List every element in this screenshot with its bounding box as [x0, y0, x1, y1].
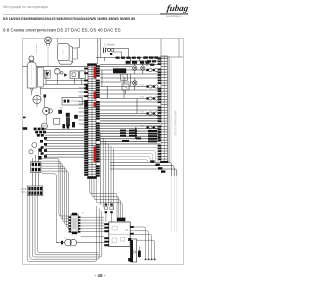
fan symbol M4 [55, 69, 64, 75]
condenser 3D box [58, 44, 73, 65]
svg-text:ПУЛЬТ УПРАВЛЕНИЯ: ПУЛЬТ УПРАВЛЕНИЯ [175, 110, 178, 136]
right side step wires [110, 162, 177, 232]
svg-text:www.fubag.ru: www.fubag.ru [166, 15, 182, 18]
lamp HL1 [133, 66, 137, 70]
plug pair XS7 [110, 204, 114, 222]
XT1 red wire marks [94, 67, 97, 163]
thick vertical x135.8 [135, 128, 137, 139]
plug-socket pairs XS rows [146, 68, 158, 129]
aux relay box K1 [121, 74, 128, 80]
side rect of cylinder [38, 67, 44, 87]
optocoupler U1 [69, 213, 81, 234]
XT1 bottom bundle to board [90, 179, 123, 218]
long wire y88.3 [40, 87, 88, 89]
svg-text:A1: A1 [125, 228, 129, 232]
lamp HL3 [133, 81, 137, 85]
hatched vertical element [66, 117, 70, 126]
QF1 to XT2 wires [32, 152, 38, 186]
capacitor C1 cluster [104, 48, 114, 55]
fan motor M3 [33, 95, 41, 103]
contact bars row y61 [126, 61, 150, 64]
small motor bottom [41, 123, 47, 129]
gray step wires from XT1 [100, 148, 158, 162]
XT1 left pin ticks [84, 68, 88, 176]
connector stubs to XT1 left [79, 88, 88, 124]
schematic frame [22, 38, 183, 264]
relay coil KM1 black box [113, 68, 126, 73]
black block right of wide box [84, 100, 89, 107]
wire loop top mid [104, 49, 129, 58]
lamp HL2 [141, 66, 145, 70]
circuit breaker QF1 [31, 162, 41, 173]
phase contact squares grid [34, 128, 47, 158]
heater EK1 hatched [44, 70, 50, 78]
ground terminal dots [145, 259, 156, 261]
board bottom drop wire [138, 247, 141, 258]
aux relay box K2 [122, 84, 129, 90]
mid vertical link wires [105, 57, 147, 94]
transformer T1 [56, 239, 104, 246]
mains wire bundle bottom left [27, 196, 102, 262]
bus terminal bars [120, 130, 157, 143]
pressure gauge SP1 [29, 56, 34, 61]
svg-text:С 25мкФ: С 25мкФ [104, 43, 114, 47]
svg-text:KM1: KM1 [114, 66, 119, 68]
mid extra verticals [102, 70, 137, 114]
fubag logo [160, 3, 190, 18]
contact squares row1 [58, 110, 77, 119]
fuse holder FU1 [128, 238, 136, 262]
wire verticals top cluster [46, 46, 82, 85]
arrow mark [64, 73, 67, 77]
black terminal bars near XP1 top [116, 56, 158, 65]
A1 right pins [130, 226, 134, 241]
long bus wire y66.7 [23, 66, 88, 68]
svg-text:Инструкция по эксплуатации: Инструкция по эксплуатации [3, 5, 48, 9]
hygrostat H [45, 37, 52, 46]
cluster to XT1 wires [45, 130, 85, 158]
top right corner wires [143, 39, 183, 57]
wide box with contacts [62, 97, 82, 105]
cylinder drain valve [30, 88, 33, 91]
dashed sensor link [36, 45, 38, 54]
left wire-end squares column [38, 148, 42, 166]
svg-text:50Гц: 50Гц [21, 191, 27, 194]
condenser bracket wire [73, 48, 78, 59]
bottom contact marks [62, 122, 75, 129]
XP1 bottom terminal marks [150, 160, 165, 172]
plug pair XS6 [104, 204, 108, 222]
controller board A1 [109, 222, 130, 247]
cluster vertical wires [32, 87, 47, 123]
board to ground wires [131, 227, 155, 259]
control board connector XP1 [160, 56, 171, 163]
U1 to board wires [80, 217, 104, 232]
wire y80.5 [46, 80, 88, 82]
sensor circle B2 [29, 150, 33, 154]
wire y84.5 [44, 84, 88, 86]
relay box K3 [70, 71, 79, 79]
A1 top terminal bar [117, 218, 126, 222]
svg-text:8.8 Схема электрическая DS 27: 8.8 Схема электрическая DS 27 DAC ES, DS… [3, 28, 121, 33]
tiny designator labels [28, 59, 145, 239]
terminal strip XT1 body [87, 63, 97, 178]
bus drop verticals [101, 133, 114, 210]
svg-text:fubag: fubag [166, 3, 189, 13]
black blob x86 y85 [86, 85, 91, 90]
top mid bracket wire [113, 52, 122, 57]
XP1 left pin ticks [158, 58, 161, 160]
A1 left pins [104, 223, 109, 246]
svg-text:DS 16/20/27/40/55/68/80/100/13: DS 16/20/27/40/55/68/80/100/137/165/200/… [3, 17, 135, 21]
wire drop at x79.5 [77, 39, 79, 48]
relay box K4 [80, 71, 86, 79]
header rule [3, 14, 188, 16]
sensor circle B1 [32, 143, 37, 148]
wire from top frame to condenser [57, 39, 59, 44]
motor M5 double circle [43, 107, 53, 114]
XT1 right pin ticks [96, 65, 100, 176]
dense wire bus to XP1 [100, 116, 160, 144]
small contact sq [44, 95, 47, 98]
wire frame to XT1 top [98, 39, 101, 64]
svg-text:- 48 -: - 48 - [95, 273, 106, 278]
terminal block XT2 [21, 186, 43, 196]
bottom small rect [54, 119, 60, 125]
compressor receiver cylinder [27, 62, 36, 88]
mid horizontal wires [96, 58, 161, 114]
left frame small marks [23, 117, 28, 130]
wire bundle to controller [42, 159, 104, 243]
